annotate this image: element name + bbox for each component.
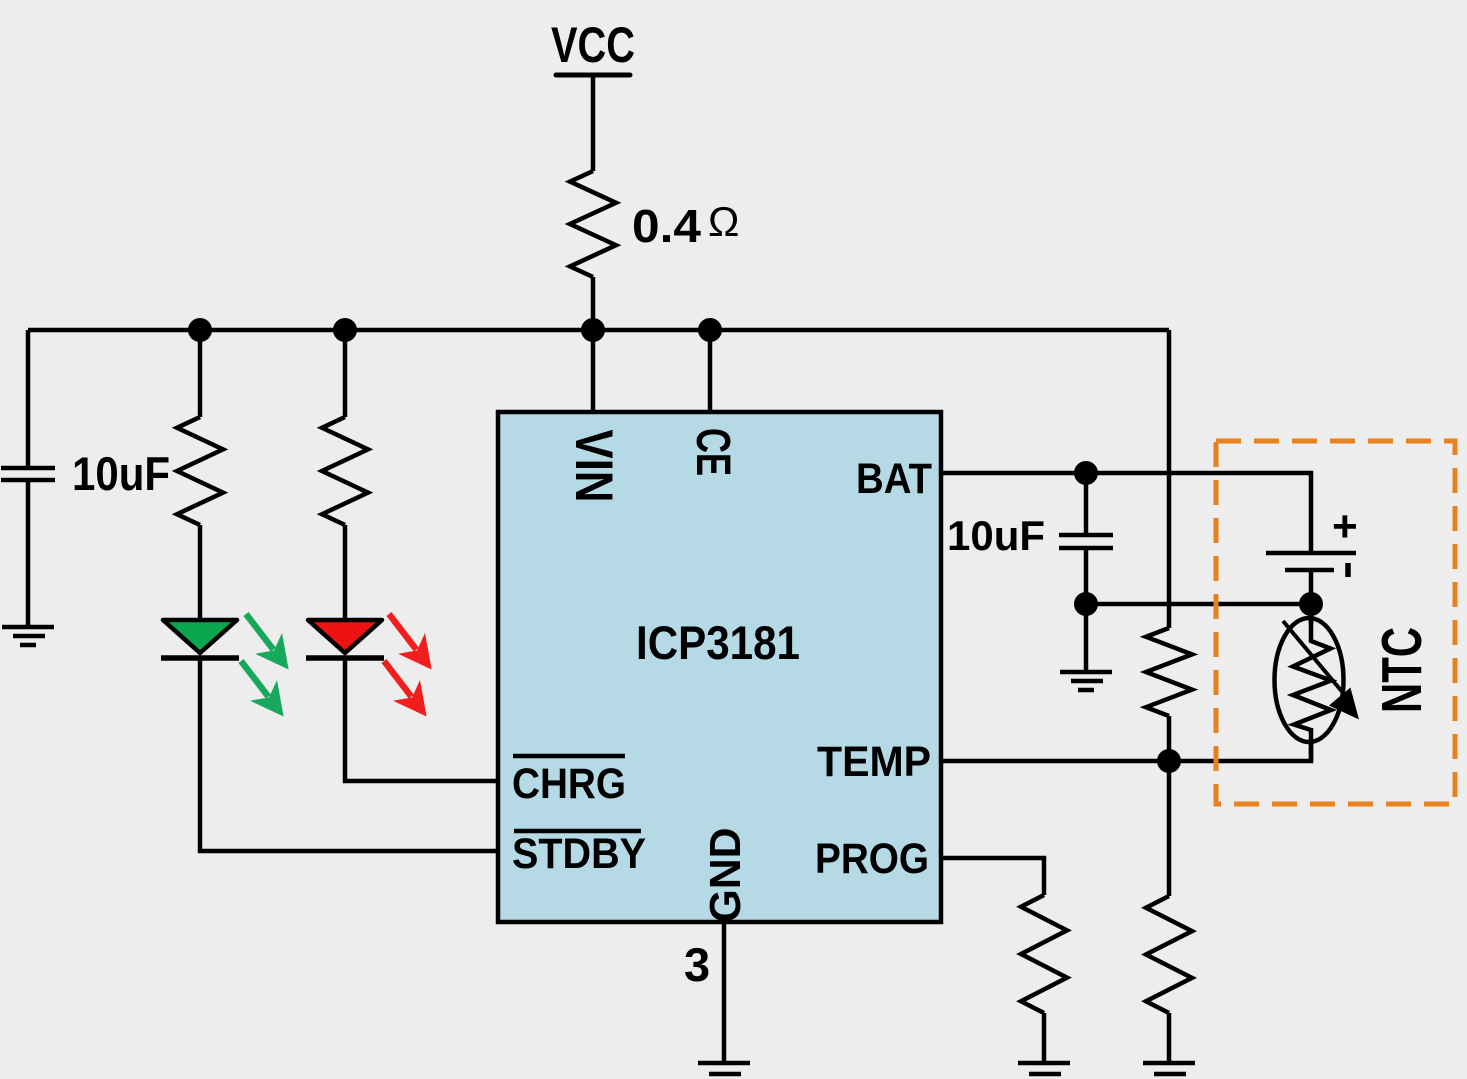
wire VCC to R1 (591, 77, 596, 171)
svg-text:+: + (1332, 502, 1358, 551)
wire VIN pin (591, 330, 596, 412)
wire R1 to bus (591, 277, 596, 330)
svg-text:STDBY: STDBY (512, 830, 646, 878)
wire PROG net (941, 858, 1044, 895)
wire R2 to LED D1 (198, 525, 203, 622)
IC U1 ICP3181 body (498, 412, 941, 922)
wire NTC to TEMP net (1309, 728, 1314, 761)
wire R3 to LED D2 (343, 525, 348, 622)
svg-text:PROG: PROG (815, 835, 929, 883)
wire CE pin (708, 330, 713, 412)
wire right vertical drop from bus (1167, 330, 1172, 628)
node VCC label (551, 17, 635, 75)
wire R6 to ground (1042, 1013, 1047, 1062)
svg-text:NTC: NTC (1370, 627, 1434, 713)
ground (R5) (1143, 1063, 1195, 1079)
svg-text:Ω: Ω (708, 198, 739, 245)
wire R4 to TEMP net (1167, 716, 1172, 896)
svg-text:10uF: 10uF (947, 512, 1045, 559)
svg-text:CHRG: CHRG (512, 760, 626, 808)
wire bus to R3 (343, 330, 348, 417)
svg-text:BAT: BAT (856, 455, 932, 503)
svg-text:VIN: VIN (564, 430, 623, 503)
svg-text:10uF: 10uF (72, 447, 170, 500)
svg-text:ICP3181: ICP3181 (636, 616, 800, 669)
svg-text:VCC: VCC (551, 17, 635, 73)
battery pack dashed enclosure (1216, 441, 1455, 804)
LED D2 red (306, 620, 384, 658)
thermistor RT1 (NTC) (1275, 604, 1360, 761)
svg-text:3: 3 (684, 938, 710, 991)
ground (C2) (1060, 672, 1112, 690)
resistor R4 (upper right) (1146, 628, 1192, 716)
resistor R5 (lower right) (1146, 896, 1192, 1013)
node junction dots (188, 318, 1323, 773)
wire battery to node (1309, 570, 1314, 604)
capacitor C1 10uF (left) (1, 330, 55, 626)
ground (R6) (1018, 1063, 1070, 1079)
wire GND pin to ground (722, 922, 727, 1062)
wire bus down to C1 (26, 330, 31, 466)
svg-text:GND: GND (701, 828, 750, 923)
wire node to battery bottom (1086, 602, 1311, 607)
ground (left) (2, 627, 54, 645)
wire R5 to ground (1167, 1013, 1172, 1062)
svg-text:CE: CE (686, 428, 739, 476)
LED D1 emission arrows (green) (228, 604, 303, 727)
wire C2 to node (1084, 548, 1089, 670)
resistor R6 (PROG) (1021, 895, 1067, 1013)
wire node to NTC (1309, 604, 1314, 624)
resistor R1 0.4 ohm (570, 171, 616, 277)
LED D1 green (161, 620, 239, 658)
ground (GND pin) (698, 1063, 750, 1079)
svg-text:TEMP: TEMP (817, 738, 931, 786)
svg-text:0.4: 0.4 (632, 200, 701, 252)
resistor R2 (green LED series) (177, 417, 223, 525)
wire: main top bus (28, 328, 1169, 333)
wire TEMP net (941, 742, 1311, 761)
capacitor C2 10uF (right) (1059, 535, 1113, 548)
LED D2 emission arrows (red) (371, 604, 446, 727)
resistor R3 (red LED series) (322, 417, 368, 525)
wire D1 cathode to STDBY (200, 658, 498, 851)
wire C2 branch (1084, 473, 1089, 533)
wire bus to R2 (198, 330, 203, 417)
wire C1 to ground (26, 480, 31, 626)
battery BT1 (1266, 502, 1358, 577)
wire D2 cathode to CHRG (345, 658, 498, 781)
wire BAT net (941, 473, 1311, 553)
